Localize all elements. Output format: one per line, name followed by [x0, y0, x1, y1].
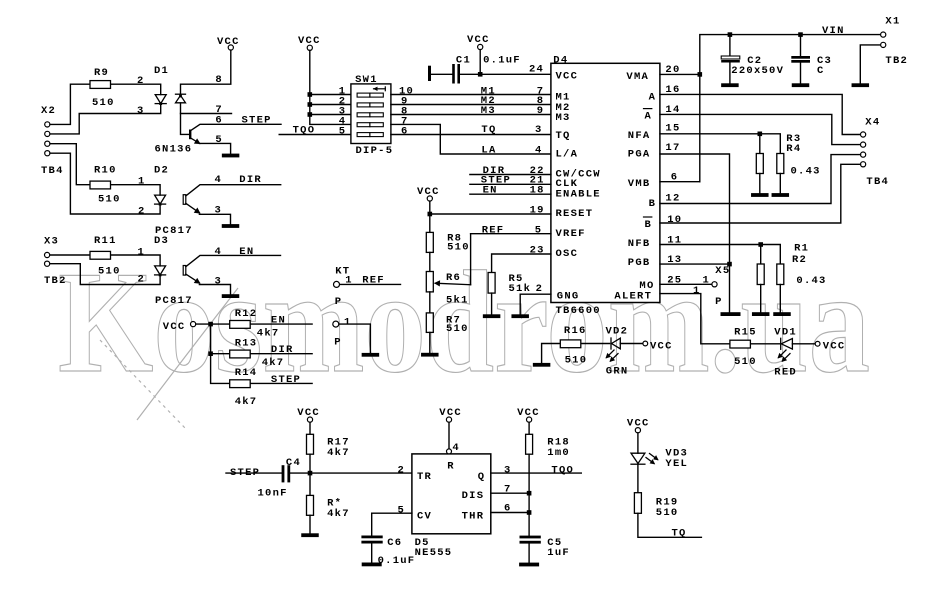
capacitor C3 plates [791, 56, 810, 59]
junction R12 rail top [208, 322, 213, 327]
wire R1 to ground [760, 285, 762, 313]
svg-text:510: 510 [656, 507, 679, 519]
ground (R1) [752, 312, 770, 316]
svg-text:4: 4 [215, 174, 223, 186]
ground (P test point) [362, 353, 380, 357]
svg-text:ENABLE: ENABLE [556, 188, 601, 200]
svg-text:2: 2 [137, 75, 145, 87]
svg-text:7: 7 [504, 484, 512, 496]
optocoupler D3 input LED [155, 266, 166, 276]
svg-text:6: 6 [504, 503, 512, 515]
wire SW1 pin2 stub [310, 104, 351, 106]
ground (D1 emitter) [222, 154, 240, 158]
wire junction to IC pin19 [430, 213, 551, 215]
switch SW1 element 1 [357, 93, 383, 97]
switch SW1 element 5 [357, 133, 383, 137]
svg-text:R14: R14 [235, 367, 258, 379]
wire IC NFA pin15 to R3/R4 [660, 134, 780, 154]
svg-text:PGA: PGA [628, 148, 651, 160]
wire R4 to ground [779, 174, 781, 193]
wire SW1 pin1 stub [310, 94, 351, 96]
junction C2/VIN [728, 32, 733, 37]
junction NFA/R3 [758, 132, 763, 137]
wire IC MO pin25 to test point [660, 283, 712, 285]
svg-text:STEP: STEP [242, 114, 272, 126]
wire KT to REF stub [340, 283, 401, 285]
svg-text:SW1: SW1 [355, 74, 378, 86]
svg-text:2: 2 [138, 205, 146, 217]
svg-text:A: A [645, 111, 653, 123]
wire R2 to ground [779, 285, 781, 313]
svg-text:LA: LA [481, 144, 496, 156]
emitter arrow D3 [186, 274, 200, 283]
junction R13 tap [208, 351, 213, 356]
ground (R4) [772, 193, 790, 197]
svg-text:DIS: DIS [462, 490, 485, 502]
wire IC GNG pin2 to ground [520, 294, 551, 314]
resistor R4 [777, 154, 784, 174]
svg-text:220x50V: 220x50V [731, 65, 784, 77]
IC D5 NE555 body [412, 454, 491, 534]
wire CV pin5 to C6 [372, 513, 412, 535]
transistor in D1 base bar [189, 130, 191, 140]
LED VD3 arrow 1 [646, 458, 654, 464]
wire R3 to ground [759, 174, 761, 193]
svg-text:STEP: STEP [271, 374, 301, 386]
svg-text:REF: REF [482, 224, 505, 236]
svg-text:2: 2 [398, 465, 406, 477]
wire P to ground [339, 324, 370, 353]
svg-text:510: 510 [446, 323, 469, 335]
watermark Kosmodrom.ua outline text [58, 241, 870, 428]
overbar for A-bar [644, 108, 652, 110]
wire NFA junction to R3 [759, 134, 761, 154]
svg-text:R2: R2 [792, 254, 807, 266]
LED VD2 arrow 2 [611, 354, 619, 362]
test point P circle [333, 321, 339, 327]
phototransistor D2 base bar [183, 195, 186, 205]
wire C1 left [431, 73, 452, 75]
power VCC terminal (VD2) [643, 341, 648, 346]
capacitor C2 bottom plate [721, 60, 740, 63]
wire DIR stub to IC pin22 [470, 174, 551, 176]
wire D2 emitter pin3 to ground [199, 214, 230, 224]
svg-text:R13: R13 [235, 338, 258, 350]
svg-text:0.1uF: 0.1uF [378, 555, 416, 567]
wire VIN to C2 [729, 35, 731, 56]
wire VCC rail to SW1 pin4 [310, 50, 351, 124]
wire D3 cathode pin2 to X3.2 [50, 264, 160, 285]
wire R13 to DIR stub [251, 353, 312, 355]
svg-text:51k: 51k [509, 283, 532, 295]
ground (X5 rail) [721, 312, 741, 316]
power VCC terminal (VD1) [815, 341, 820, 346]
wire 555 THR pin6 [491, 512, 529, 514]
svg-text:2: 2 [138, 274, 146, 286]
resistor R8 [426, 232, 433, 252]
capacitor C5 plates [520, 536, 541, 539]
wire C4 to NE555 pin2 [290, 472, 412, 474]
wire R9 to D1 anode [111, 84, 161, 94]
ground (R16) [533, 363, 551, 367]
LED VD1 arrow 2 [783, 354, 791, 362]
svg-text:4k7: 4k7 [235, 396, 258, 408]
trimmer R6 body [426, 272, 433, 292]
connector X3 pin 1 [45, 252, 50, 257]
wire IC NFB pin11 to R1/R2 [660, 245, 780, 265]
svg-text:VD2: VD2 [606, 326, 629, 338]
connector X2 pin 2 [45, 131, 50, 136]
svg-text:R12: R12 [235, 308, 258, 320]
svg-text:10: 10 [667, 214, 682, 226]
wire 555 DIS pin7 [491, 492, 529, 494]
svg-text:PGB: PGB [628, 257, 651, 269]
svg-text:R: R [447, 461, 455, 473]
svg-text:3: 3 [137, 105, 145, 117]
junction SW1 pin1 [308, 92, 313, 97]
svg-text:EN: EN [239, 246, 254, 258]
capacitor C4 plates [282, 465, 285, 482]
wire rail to R12 [211, 323, 230, 325]
phototransistor D3 base bar [183, 266, 186, 276]
wire SW1.10 to IC M1 [391, 94, 551, 96]
wire IC A-bar pin14 to X4.2 [660, 114, 861, 144]
resistor R2 [777, 264, 784, 285]
svg-text:P: P [715, 296, 723, 308]
svg-text:D4: D4 [553, 54, 568, 66]
capacitor C1 plates [452, 64, 455, 84]
connector X4 pin 2 [861, 142, 866, 147]
wire VCC to pin19 junction [429, 201, 431, 232]
wire IC A pin16 to X4.1 [660, 94, 861, 134]
resistor R19 [634, 493, 641, 514]
capacitor C1 left terminal bar [428, 66, 431, 81]
power VCC terminal (R12) [191, 322, 196, 327]
wire R12 to EN stub [251, 323, 312, 325]
resistor R9 [90, 81, 111, 89]
resistor R18 [526, 434, 533, 454]
svg-text:X4: X4 [865, 117, 880, 129]
svg-text:20: 20 [665, 64, 680, 76]
resistor R17 [307, 434, 314, 454]
emitter arrow D2 [186, 203, 200, 213]
junction NFB/R1 [758, 242, 763, 247]
wire D1 emitter pin5 to ground [200, 143, 231, 153]
LED VD2 arrow 1 [607, 350, 615, 358]
LED VD1 arrow 1 [779, 350, 787, 358]
LED VD1 [781, 338, 793, 349]
svg-text:24: 24 [529, 64, 544, 76]
svg-text:Q: Q [478, 471, 486, 483]
watermark dotted diagonal [100, 340, 185, 428]
power VCC terminal (R18) [527, 417, 532, 422]
watermark long arc left [137, 288, 238, 420]
wire NFB junction to R1 [760, 245, 762, 265]
svg-text:RED: RED [774, 366, 797, 378]
ground (C2) [721, 83, 739, 87]
svg-text:510: 510 [734, 356, 757, 368]
wire R14 to STEP stub [251, 382, 312, 384]
svg-text:VMB: VMB [628, 178, 651, 190]
ground (C3) [792, 83, 810, 87]
svg-text:17: 17 [665, 142, 680, 154]
connector X2 pin 3 [45, 141, 50, 146]
wire C6 to ground [371, 544, 373, 563]
power VCC terminal (R8) [427, 196, 432, 201]
wire IC B pin12 to X4.3 [660, 155, 861, 204]
svg-text:DIR: DIR [271, 344, 294, 356]
svg-text:1: 1 [693, 285, 701, 297]
wire junction to Rstar [309, 473, 311, 495]
junction X5 node [727, 262, 732, 267]
power VCC terminal (VD3) [635, 428, 640, 433]
wire STEP stub to IC pin21 [470, 183, 551, 185]
junction R8/pin19 [428, 212, 433, 217]
svg-text:X3: X3 [44, 236, 59, 248]
wire VIN to C3 [800, 35, 802, 56]
overbar for B-bar [644, 216, 652, 218]
svg-text:19: 19 [530, 204, 545, 216]
wire SW1 pin3 stub [310, 114, 351, 116]
wire C3 to ground [800, 63, 802, 83]
power VCC terminal (555) [446, 417, 451, 422]
test point MO circle [712, 282, 717, 287]
ground (X1) [852, 83, 870, 87]
switch SW1 body [351, 84, 391, 144]
svg-text:0.43: 0.43 [796, 275, 826, 287]
wire X2.3 to R10 [50, 144, 90, 185]
resistor R7 [426, 313, 433, 333]
svg-text:R15: R15 [734, 327, 757, 339]
wire VIN rail [700, 35, 881, 182]
svg-text:8: 8 [215, 74, 223, 86]
svg-text:R4: R4 [786, 143, 801, 155]
svg-text:VCC: VCC [556, 71, 579, 83]
wire VD1 to VCC [792, 343, 815, 345]
junction SW1 pin2 [308, 102, 313, 107]
ground (D2 emitter) [222, 224, 240, 228]
svg-text:EN: EN [271, 315, 286, 327]
emitter arrow D1 [191, 138, 200, 144]
wire D1 pin7 [181, 113, 232, 115]
wire ground to R16 [542, 344, 561, 363]
svg-text:5: 5 [339, 126, 347, 138]
svg-text:PC817: PC817 [155, 295, 193, 307]
wire REF to VREF pin5 [471, 233, 551, 235]
power VCC terminal (SW1) [307, 45, 312, 50]
wire IC PGB pin13 to X5 [660, 263, 730, 265]
svg-text:X2: X2 [41, 105, 56, 117]
svg-text:R10: R10 [94, 165, 117, 177]
junction C3/VIN [798, 32, 803, 37]
svg-text:R16: R16 [564, 325, 587, 337]
svg-text:VCC: VCC [650, 341, 673, 353]
wire R16 to VD2 [581, 343, 609, 345]
svg-text:TQO: TQO [551, 465, 574, 477]
svg-text:C: C [817, 65, 825, 77]
svg-text:CV: CV [417, 510, 432, 522]
wire EN stub to IC pin18 [470, 193, 551, 195]
svg-text:VMA: VMA [626, 71, 649, 83]
switch SW1 element 2 [357, 103, 383, 107]
svg-text:NFB: NFB [628, 238, 651, 250]
svg-text:VIN: VIN [822, 25, 845, 37]
junction SW1 pin3 [308, 112, 313, 117]
svg-text:1: 1 [138, 246, 146, 258]
wire VCC to R12 junction [196, 323, 211, 325]
svg-text:0.43: 0.43 [791, 165, 821, 177]
switch SW1 element 4 [357, 123, 383, 127]
svg-text:R6: R6 [446, 272, 461, 284]
switch SW1 position indicator arrow [373, 87, 385, 91]
svg-text:6: 6 [671, 171, 679, 183]
svg-text:VREF: VREF [556, 228, 586, 240]
wire D1 cathode pin3 to X2.2 [50, 104, 161, 134]
svg-text:B: B [649, 198, 657, 210]
wire IC ALERT pin1 to R15 [660, 294, 730, 344]
svg-text:10nF: 10nF [258, 487, 288, 499]
junction DIS/R18 [527, 491, 532, 496]
svg-text:3: 3 [504, 465, 512, 477]
svg-text:23: 23 [530, 245, 545, 257]
wire 555 Q pin3 TQO [491, 472, 582, 474]
connector X2 pin 4 [45, 151, 50, 156]
wire IC VMB pin6 to rail [660, 181, 700, 183]
svg-text:1uF: 1uF [547, 547, 570, 559]
svg-text:5k1: 5k1 [446, 295, 469, 307]
optocoupler D1 input LED [155, 95, 166, 105]
svg-text:YEL: YEL [665, 458, 688, 470]
wire IC PGA pin17 to X5 rail [660, 154, 730, 312]
ground (R*) [301, 533, 319, 537]
resistor R14 [230, 380, 251, 388]
svg-text:11: 11 [667, 234, 682, 246]
svg-text:1: 1 [138, 176, 146, 188]
resistor R15 [730, 340, 751, 348]
junction VMA rail [698, 72, 703, 77]
wire rail to R13 [211, 353, 230, 355]
wire VCC to R17 [309, 422, 311, 434]
power VCC terminal (D1) [228, 45, 233, 50]
wire Rstar to ground [309, 515, 311, 533]
wire SW1.8 to IC M3 [391, 114, 551, 116]
svg-text:3: 3 [215, 275, 223, 287]
ground (R7) [421, 353, 439, 357]
svg-text:4k7: 4k7 [257, 328, 280, 340]
wire D1 collector pin6 STEP [191, 124, 282, 130]
svg-text:P: P [335, 296, 343, 308]
svg-text:R1: R1 [794, 243, 809, 255]
LED VD2 [611, 338, 620, 349]
wire IC VMA pin20 to rail [660, 73, 700, 75]
wire X1.2 to ground [860, 45, 880, 83]
svg-text:GRN: GRN [606, 365, 629, 377]
resistor R11 [90, 251, 111, 259]
svg-text:4: 4 [215, 246, 223, 258]
svg-text:B: B [645, 219, 653, 231]
svg-text:DIP-5: DIP-5 [356, 145, 394, 157]
connector X4 pin 3 [861, 152, 866, 157]
svg-text:TR: TR [417, 471, 432, 483]
svg-text:C1: C1 [456, 54, 471, 66]
svg-text:5: 5 [398, 505, 406, 517]
wire VCC to VD3 [637, 433, 639, 453]
wire REF vertical to wiper [470, 234, 472, 285]
svg-text:25: 25 [667, 274, 682, 286]
svg-text:TQ: TQ [556, 130, 571, 142]
svg-text:GNG: GNG [557, 291, 580, 303]
wire D1 photodiode to base [181, 103, 189, 134]
test point KT circle [334, 281, 340, 287]
svg-text:NE555: NE555 [415, 547, 453, 559]
wire STEP to C4 [226, 472, 282, 474]
svg-text:3: 3 [535, 124, 543, 136]
svg-text:R11: R11 [94, 235, 117, 247]
power VCC terminal (R17) [307, 417, 312, 422]
svg-text:M3: M3 [556, 112, 571, 124]
svg-text:3: 3 [215, 205, 223, 217]
resistor R* [307, 495, 314, 515]
svg-text:14: 14 [665, 104, 680, 116]
svg-text:M3: M3 [481, 105, 496, 117]
ground (GNG) [511, 314, 529, 318]
svg-text:X1: X1 [885, 15, 900, 27]
svg-text:5: 5 [535, 224, 543, 236]
svg-text:R9: R9 [94, 67, 109, 79]
junction C1/VCC/pin24 [478, 72, 483, 77]
svg-text:DIR: DIR [239, 174, 262, 186]
connector X2 pin 1 [45, 122, 50, 127]
resistor R1 [757, 264, 764, 285]
ground (R2) [773, 312, 791, 316]
svg-text:VCC: VCC [823, 341, 846, 353]
svg-text:EN: EN [483, 185, 498, 197]
svg-text:6: 6 [401, 126, 409, 138]
ground (R5) [483, 314, 501, 318]
switch SW1 element 3 [357, 113, 383, 117]
wire R7 to ground [429, 332, 431, 352]
LED VD3 [631, 453, 645, 464]
svg-text:TQ: TQ [481, 124, 496, 136]
svg-text:5: 5 [215, 134, 223, 146]
wire D3 emitter pin3 to ground [199, 285, 230, 295]
svg-text:13: 13 [667, 254, 682, 266]
wire VCC to pin24 rail [479, 50, 481, 75]
wire R5 to ground [491, 293, 493, 314]
wire VD3 to R19 [637, 464, 639, 493]
resistor R5 [488, 273, 495, 294]
svg-text:D1: D1 [154, 65, 169, 77]
ground (C5) [519, 563, 539, 567]
wire SW1.9 to IC M2 [391, 104, 551, 106]
optocoupler D1 photodiode [176, 94, 186, 103]
wire C5 to ground [528, 544, 530, 563]
svg-text:16: 16 [665, 84, 680, 96]
svg-text:TB6600: TB6600 [556, 305, 601, 317]
svg-text:OSC: OSC [556, 248, 579, 260]
wire TQO to SW1 pin5 [279, 134, 351, 136]
svg-text:4: 4 [535, 144, 543, 156]
wire VCC to 555 pin4 [448, 422, 450, 449]
svg-text:4: 4 [452, 442, 460, 454]
optocoupler D2 input LED [155, 195, 166, 205]
svg-text:VCC: VCC [163, 321, 186, 333]
wire D3 collector pin4 EN [186, 255, 281, 266]
svg-text:L/A: L/A [556, 148, 579, 160]
ground (D3 emitter) [222, 294, 240, 298]
svg-text:P: P [334, 337, 342, 349]
svg-text:NFA: NFA [628, 130, 651, 142]
